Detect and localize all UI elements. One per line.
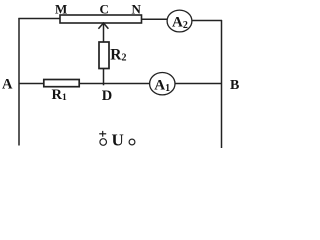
- svg-text:M: M: [55, 1, 67, 16]
- svg-text:N: N: [132, 1, 142, 16]
- svg-text:B: B: [230, 78, 239, 93]
- svg-text:D: D: [102, 88, 112, 104]
- svg-text:U: U: [112, 131, 124, 150]
- svg-text:A: A: [2, 77, 13, 93]
- svg-text:C: C: [100, 1, 109, 16]
